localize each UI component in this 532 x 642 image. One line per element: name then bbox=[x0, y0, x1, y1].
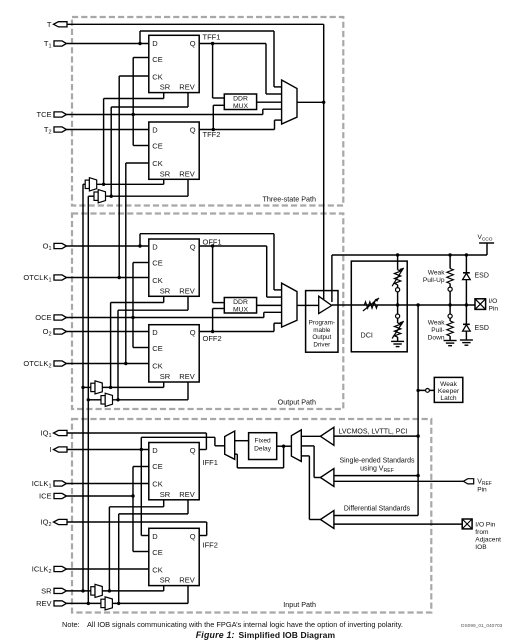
svg-text:REV: REV bbox=[179, 83, 194, 92]
svg-text:D: D bbox=[152, 243, 158, 252]
svg-text:Q: Q bbox=[190, 446, 196, 455]
svg-text:Pull-Up: Pull-Up bbox=[423, 277, 445, 284]
svg-text:CK: CK bbox=[152, 362, 162, 371]
svg-text:Q: Q bbox=[190, 328, 196, 337]
svg-text:D: D bbox=[152, 532, 158, 541]
svg-text:D: D bbox=[152, 126, 158, 135]
svg-text:Q: Q bbox=[190, 39, 196, 48]
svg-text:CE: CE bbox=[152, 344, 162, 353]
svg-text:REV: REV bbox=[179, 576, 194, 585]
svg-text:DCI: DCI bbox=[361, 331, 373, 340]
svg-text:REV: REV bbox=[179, 490, 194, 499]
svg-text:Output: Output bbox=[312, 334, 331, 341]
svg-text:Pull-: Pull- bbox=[431, 327, 444, 334]
svg-text:Pin: Pin bbox=[489, 305, 499, 312]
svg-text:Program-: Program- bbox=[309, 320, 335, 327]
svg-text:LVCMOS, LVTTL, PCI: LVCMOS, LVTTL, PCI bbox=[339, 429, 408, 436]
svg-text:OTCLK1: OTCLK1 bbox=[23, 273, 51, 284]
svg-text:OTCLK2: OTCLK2 bbox=[23, 359, 51, 370]
svg-text:Weak: Weak bbox=[428, 320, 445, 327]
svg-text:OFF2: OFF2 bbox=[203, 334, 222, 343]
svg-text:SR: SR bbox=[160, 286, 171, 295]
svg-text:I/O: I/O bbox=[489, 298, 498, 305]
svg-text:IFF1: IFF1 bbox=[203, 458, 218, 467]
svg-text:Figure 1:: Figure 1: bbox=[196, 630, 235, 640]
svg-text:SR: SR bbox=[41, 587, 52, 596]
svg-text:MUX: MUX bbox=[233, 103, 249, 110]
svg-text:Fixed: Fixed bbox=[255, 438, 271, 445]
svg-text:I/O Pin: I/O Pin bbox=[475, 521, 495, 528]
svg-text:mable: mable bbox=[313, 327, 331, 334]
svg-text:TFF2: TFF2 bbox=[203, 130, 221, 139]
svg-text:DDR: DDR bbox=[233, 299, 248, 306]
svg-text:Weak: Weak bbox=[428, 270, 445, 277]
svg-text:REV: REV bbox=[179, 169, 194, 178]
svg-text:Simplified IOB Diagram: Simplified IOB Diagram bbox=[239, 630, 336, 640]
svg-text:All IOB signals communicating: All IOB signals communicating with the F… bbox=[87, 620, 403, 629]
svg-text:SR: SR bbox=[160, 576, 171, 585]
svg-text:TFF1: TFF1 bbox=[203, 33, 221, 42]
svg-text:CE: CE bbox=[152, 462, 162, 471]
svg-text:IOB: IOB bbox=[475, 544, 487, 551]
svg-text:D: D bbox=[152, 446, 158, 455]
svg-text:Keeper: Keeper bbox=[438, 388, 460, 395]
svg-text:Down: Down bbox=[428, 335, 445, 342]
svg-text:Delay: Delay bbox=[254, 446, 272, 453]
svg-text:Weak: Weak bbox=[440, 381, 457, 388]
svg-text:DDR: DDR bbox=[233, 96, 248, 103]
svg-text:OCE: OCE bbox=[35, 313, 51, 322]
svg-text:SR: SR bbox=[160, 169, 171, 178]
svg-text:REV: REV bbox=[179, 286, 194, 295]
svg-text:Q: Q bbox=[190, 243, 196, 252]
svg-text:CK: CK bbox=[152, 480, 162, 489]
svg-text:Driver: Driver bbox=[313, 341, 330, 348]
svg-text:IFF2: IFF2 bbox=[203, 541, 218, 550]
svg-text:Latch: Latch bbox=[440, 395, 456, 402]
svg-text:Output Path: Output Path bbox=[278, 398, 316, 407]
svg-text:CK: CK bbox=[152, 72, 162, 81]
svg-text:ESD: ESD bbox=[475, 325, 489, 332]
svg-text:Q: Q bbox=[190, 126, 196, 135]
svg-text:Three-state Path: Three-state Path bbox=[262, 195, 316, 204]
svg-text:CE: CE bbox=[152, 259, 162, 268]
svg-text:ICE: ICE bbox=[39, 492, 52, 501]
svg-text:REV: REV bbox=[36, 599, 51, 608]
svg-text:D: D bbox=[152, 39, 158, 48]
svg-text:CK: CK bbox=[152, 276, 162, 285]
svg-text:CE: CE bbox=[152, 548, 162, 557]
svg-text:Pin: Pin bbox=[477, 487, 487, 494]
svg-text:Note:: Note: bbox=[62, 620, 80, 629]
svg-text:MUX: MUX bbox=[233, 306, 249, 313]
svg-text:T: T bbox=[47, 20, 52, 29]
svg-text:SR: SR bbox=[160, 83, 171, 92]
svg-text:Input Path: Input Path bbox=[283, 600, 316, 609]
svg-text:SR: SR bbox=[160, 490, 171, 499]
svg-text:from: from bbox=[475, 529, 489, 536]
svg-text:REV: REV bbox=[179, 372, 194, 381]
svg-text:SR: SR bbox=[160, 372, 171, 381]
svg-text:Q: Q bbox=[190, 532, 196, 541]
svg-text:DS099_01_040703: DS099_01_040703 bbox=[461, 623, 503, 629]
svg-text:Single-ended Standards: Single-ended Standards bbox=[339, 458, 415, 465]
svg-text:I: I bbox=[49, 445, 51, 454]
svg-text:Adjacent: Adjacent bbox=[475, 536, 501, 543]
svg-text:CK: CK bbox=[152, 565, 162, 574]
svg-text:CE: CE bbox=[152, 55, 162, 64]
svg-text:Differential Standards: Differential Standards bbox=[344, 505, 411, 512]
svg-text:ESD: ESD bbox=[475, 273, 489, 280]
svg-text:CE: CE bbox=[152, 142, 162, 151]
svg-text:D: D bbox=[152, 328, 158, 337]
svg-text:TCE: TCE bbox=[37, 110, 52, 119]
svg-text:CK: CK bbox=[152, 159, 162, 168]
